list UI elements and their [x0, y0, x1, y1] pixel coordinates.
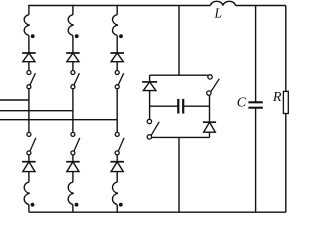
wire feed from top bus to commutation bridge [178, 6, 180, 76]
switch S6 upper contact [115, 132, 119, 136]
polarity dot winding T1 lower [31, 203, 35, 207]
wire branch A from top bus to winding [28, 5, 30, 15]
wire winding to thyristor VT2 [72, 35, 74, 53]
polarity dot winding T3 lower [119, 203, 123, 207]
wire thyristor VT2 to switch S2 [72, 62, 74, 71]
wire R branch upper [285, 6, 287, 92]
diode VD1 (left, commutation) [142, 82, 157, 91]
wire phase node to switch S6 [116, 120, 118, 133]
svg-text:R: R [272, 90, 282, 105]
wire bottom DC bus [29, 211, 286, 213]
wire switch S2 to phase node [72, 89, 74, 111]
wire capacitor C1 right lead [183, 105, 209, 107]
wire C branch upper [255, 6, 257, 102]
wire winding to bottom bus [116, 205, 118, 213]
polarity dot winding T1 upper [31, 34, 35, 38]
switch S2 blade [74, 73, 79, 85]
switch S7 upper contact [147, 119, 151, 123]
wire top DC bus right of L [236, 5, 286, 7]
thyristor VT3 [110, 53, 124, 62]
wire winding to bottom bus [72, 205, 74, 213]
wire capacitor C1 left lead [150, 105, 179, 107]
transformer winding T1 lower [24, 182, 29, 205]
thyristor VT5 [66, 162, 80, 172]
polarity dot winding T2 upper [75, 34, 79, 38]
resistor R body [283, 91, 288, 113]
thyristor VT1 [22, 53, 36, 62]
wire commutation bridge to bottom bus [178, 137, 180, 212]
label L [214, 6, 223, 21]
transformer winding T2 upper [68, 15, 73, 36]
switch S4 upper contact [27, 132, 31, 136]
label C [237, 95, 247, 110]
switch S3 blade [118, 73, 123, 85]
wire diode VD2 to bottom rail [209, 132, 211, 137]
switch S7 blade [151, 122, 159, 136]
switch S3 lower contact [115, 85, 119, 89]
commutation capacitor C1 plates [178, 99, 183, 114]
wire commutation bridge bottom rail [152, 136, 210, 138]
switch S5 upper contact [71, 132, 75, 136]
wire switch S1 to phase node [28, 89, 30, 100]
switch S6 lower contact [115, 151, 119, 155]
wire phase C input line [0, 119, 117, 121]
wire phase node to switch S4 [28, 100, 30, 132]
wire thyristor VT1 to switch S1 [28, 62, 30, 71]
polarity dot winding T2 lower [75, 203, 79, 207]
wire left rail to switch S7 [149, 91, 151, 120]
thyristor VT2 [66, 53, 80, 62]
switch S6 blade [118, 138, 124, 151]
wire switch S3 to phase node [116, 89, 118, 120]
switch S8 blade [210, 79, 219, 93]
switch S8 upper contact [208, 75, 212, 79]
switch S5 blade [74, 138, 80, 151]
wire switch S6 to thyristor VT6 [116, 155, 118, 162]
switch S2 upper contact [71, 71, 75, 75]
transformer winding T3 lower [112, 182, 117, 205]
diode VD2 (right, commutation) [203, 122, 216, 132]
wire phase node to switch S5 [72, 111, 74, 133]
wire top DC bus left of L [29, 5, 211, 7]
svg-text:L: L [214, 6, 223, 21]
switch S4 lower contact [27, 151, 31, 155]
switch S1 blade [30, 73, 35, 85]
switch S4 blade [30, 138, 36, 151]
wire branch B from top bus to winding [72, 5, 74, 15]
switch S5 lower contact [71, 151, 75, 155]
wire C branch lower [255, 109, 257, 213]
wire thyristor VT3 to switch S3 [116, 62, 118, 71]
wire commutation bridge left rail upper [149, 75, 151, 82]
wire thyristor VT6 to winding [116, 172, 118, 183]
inductor L (two humps on top bus) [210, 1, 235, 5]
switch S1 upper contact [27, 71, 31, 75]
thyristor VT6 [110, 162, 124, 172]
polarity dot winding T3 upper [119, 34, 123, 38]
svg-text:C: C [237, 95, 247, 110]
wire winding to thyristor VT3 [116, 35, 118, 53]
capacitor C plates [248, 102, 262, 107]
transformer winding T2 lower [68, 182, 73, 205]
wire switch S5 to thyristor VT5 [72, 155, 74, 162]
label R [272, 90, 282, 105]
switch S7 lower contact [147, 135, 151, 139]
wire switch S4 to thyristor VT4 [28, 155, 30, 162]
wire commutation bridge top rail [150, 74, 208, 76]
wire thyristor VT4 to winding [28, 172, 30, 183]
wire phase B input line [0, 110, 73, 112]
wire phase A input line [0, 99, 29, 101]
switch S8 lower contact [207, 91, 211, 95]
wire branch C from top bus to winding [116, 5, 118, 15]
switch S1 lower contact [27, 85, 31, 89]
wire winding to thyristor VT1 [28, 35, 30, 53]
switch S3 upper contact [115, 71, 119, 75]
wire R branch lower [285, 114, 287, 213]
switch S2 lower contact [71, 85, 75, 89]
transformer winding T1 upper [24, 15, 29, 36]
wire right rail to diode VD2 [209, 95, 211, 122]
wire thyristor VT5 to winding [72, 172, 74, 183]
thyristor VT4 [22, 162, 36, 172]
wire winding to bottom bus [28, 205, 30, 213]
transformer winding T3 upper [112, 15, 117, 36]
